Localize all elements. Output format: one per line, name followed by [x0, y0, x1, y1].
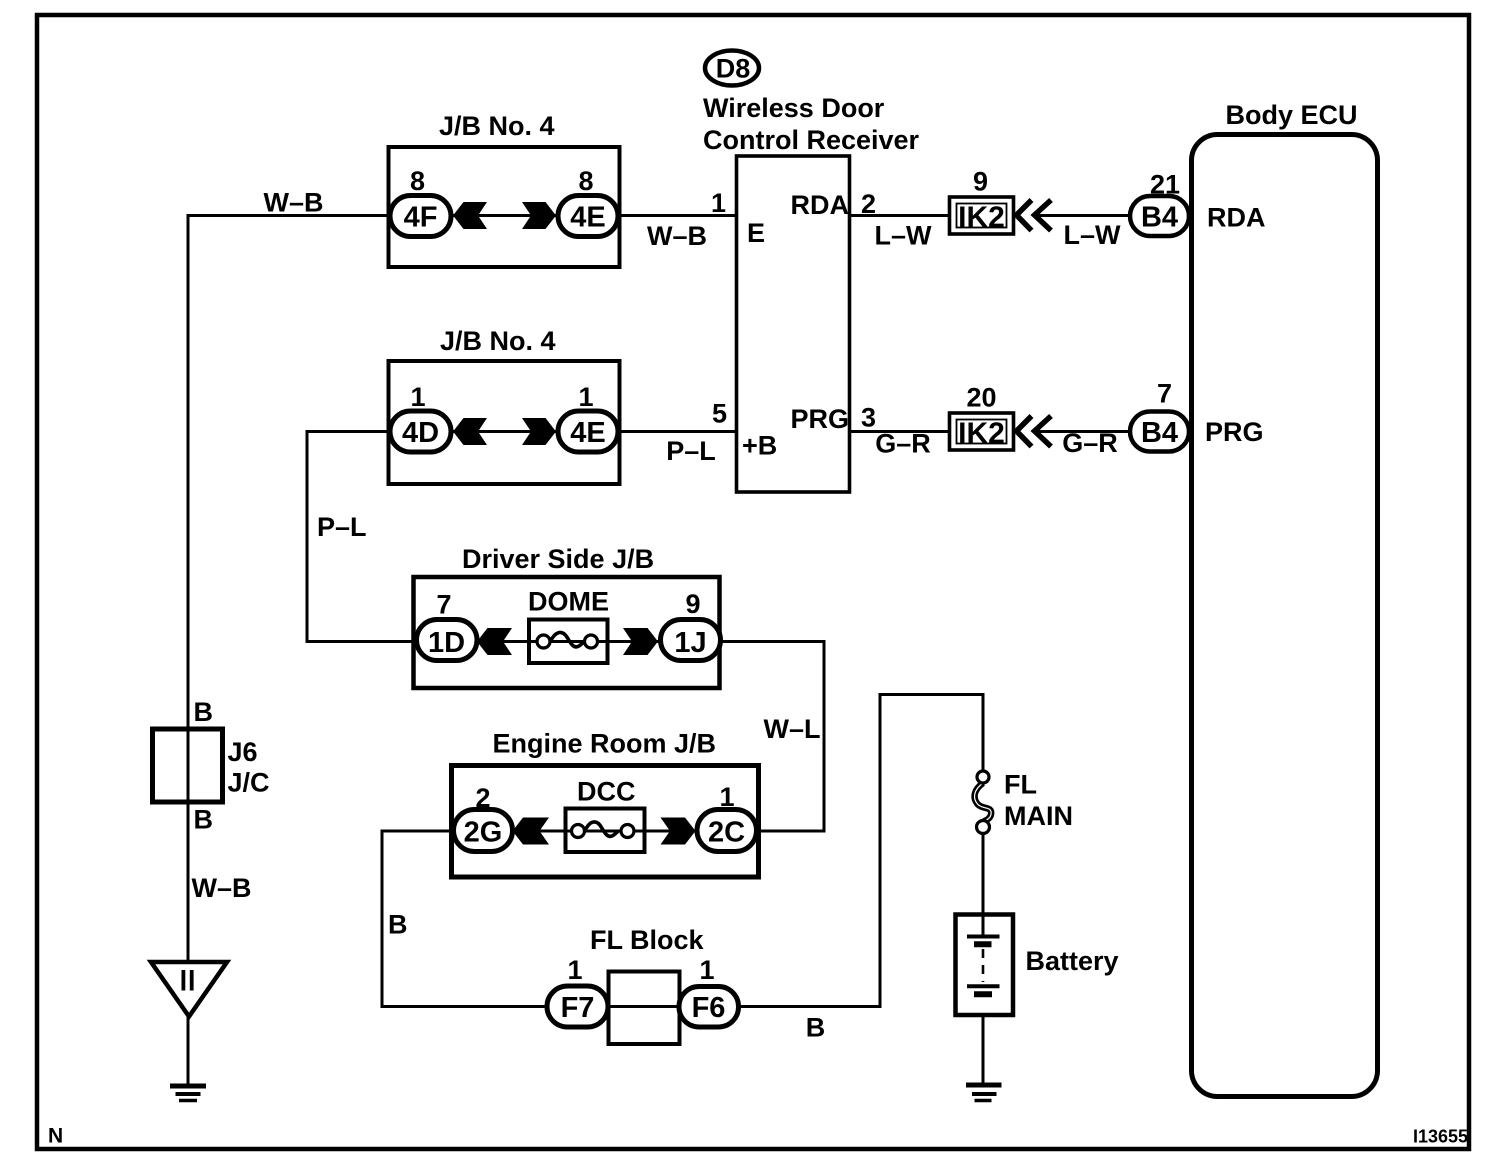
- wire: 4F to 4E inside J/B No.4 (row 1): [451, 214, 558, 217]
- connector 1J: [661, 620, 721, 661]
- wire W-B: 4E to receiver pin 1: [618, 214, 736, 217]
- ground connector triangle II: [151, 962, 227, 1017]
- connector 4E (row 2): [558, 411, 618, 452]
- wire L-W: receiver pin 2 to IK2: [851, 214, 950, 217]
- svg-text:N: N: [48, 1125, 63, 1148]
- wire: 4D to 4E inside J/B No.4 (row 2): [451, 430, 558, 433]
- svg-text:5: 5: [712, 399, 727, 429]
- svg-text:J/B No. 4: J/B No. 4: [439, 111, 555, 141]
- svg-text:4D: 4D: [402, 417, 439, 449]
- svg-text:20: 20: [966, 383, 996, 413]
- svg-text:W–B: W–B: [264, 188, 324, 218]
- svg-text:Battery: Battery: [1026, 946, 1119, 976]
- svg-text:1: 1: [699, 955, 714, 985]
- svg-text:2G: 2G: [464, 817, 503, 849]
- svg-text:4F: 4F: [404, 202, 438, 234]
- wire L-W: IK2 chevrons to B4: [1038, 214, 1131, 217]
- battery plate long bottom: [967, 984, 1000, 988]
- svg-text:FL: FL: [1004, 770, 1037, 800]
- arrow left (driver side): [477, 628, 512, 655]
- svg-text:1J: 1J: [674, 627, 706, 659]
- svg-text:J/B No. 4: J/B No. 4: [440, 326, 556, 356]
- arrow right (driver side): [623, 628, 658, 655]
- svg-text:P–L: P–L: [317, 512, 367, 542]
- wire: 2G to 2C inside Engine Room J/B: [513, 830, 697, 833]
- svg-text:8: 8: [410, 166, 425, 196]
- wire: battery to ground: [982, 994, 985, 1085]
- svg-text:MAIN: MAIN: [1004, 801, 1073, 831]
- connector B4 (row 1): [1130, 196, 1189, 236]
- connector D8 oval: [705, 51, 759, 86]
- svg-text:B4: B4: [1141, 202, 1178, 234]
- connector 2G: [454, 810, 513, 852]
- svg-text:B: B: [806, 1013, 826, 1043]
- svg-text:21: 21: [1150, 170, 1180, 200]
- svg-text:1: 1: [410, 382, 425, 412]
- svg-text:9: 9: [973, 167, 988, 197]
- arrow right (engine room): [661, 818, 696, 845]
- wire W-B: ground net from 4F left, down left side to J6 junction and triangle: [188, 216, 390, 963]
- Engine Room J/B box: [452, 766, 759, 878]
- svg-text:L–W: L–W: [875, 221, 933, 251]
- connector 4E (row 1): [558, 196, 618, 237]
- wire: triangle II apex to ground: [187, 1016, 190, 1085]
- battery plate short top: [974, 941, 992, 947]
- battery: [956, 915, 1014, 1016]
- svg-text:J/C: J/C: [228, 768, 270, 798]
- svg-text:RDA: RDA: [791, 190, 850, 220]
- chevrons (row 2): [1017, 416, 1032, 447]
- connector F7: [547, 986, 608, 1027]
- svg-text:P–L: P–L: [666, 436, 716, 466]
- wire W-L: 1J right, down to 2C of Engine Room J/B: [720, 642, 824, 832]
- svg-text:PRG: PRG: [1205, 417, 1264, 447]
- connector B4 (row 2): [1130, 412, 1189, 452]
- svg-text:G–R: G–R: [1062, 428, 1118, 458]
- svg-text:B: B: [194, 697, 214, 727]
- svg-text:IK2: IK2: [958, 201, 1005, 234]
- svg-text:IK2: IK2: [958, 417, 1005, 450]
- svg-text:E: E: [747, 218, 765, 248]
- wire P-L: 4E to receiver pin 5: [618, 430, 736, 433]
- svg-text:DCC: DCC: [577, 777, 636, 807]
- svg-text:J6: J6: [228, 737, 258, 767]
- battery dashed center: [982, 949, 985, 982]
- svg-text:1: 1: [719, 782, 734, 812]
- wire G-R: IK2 chevrons to B4: [1038, 430, 1131, 433]
- svg-text:1: 1: [567, 955, 582, 985]
- arrow left (row 1): [453, 202, 487, 229]
- wire G-R: receiver pin 3 to IK2: [851, 430, 950, 433]
- wire: FL MAIN to battery: [982, 833, 985, 937]
- svg-text:I13655: I13655: [1413, 1127, 1468, 1147]
- svg-text:RDA: RDA: [1207, 203, 1266, 233]
- J/B No.4 box (row 2): [389, 361, 620, 484]
- J/B No.4 box (row 1): [389, 147, 620, 267]
- wire B: 2G left, down to F7 of FL Block: [382, 831, 547, 1007]
- svg-text:W–B: W–B: [192, 873, 252, 903]
- svg-text:DOME: DOME: [528, 587, 609, 617]
- connector 4F: [390, 196, 451, 237]
- arrow right (row 1): [522, 202, 556, 229]
- svg-text:G–R: G–R: [875, 429, 931, 459]
- svg-text:W–B: W–B: [647, 221, 707, 251]
- svg-text:Control Receiver: Control Receiver: [703, 125, 920, 155]
- fuse DOME: [529, 620, 608, 664]
- fusible link FL MAIN: [975, 783, 992, 822]
- connector IK2 (row 2): [950, 413, 1014, 450]
- svg-text:3: 3: [861, 403, 876, 433]
- ground (left): [170, 1084, 206, 1089]
- battery plate long top: [967, 935, 1000, 939]
- svg-text:4E: 4E: [570, 417, 605, 449]
- junction J6 J/C: [153, 729, 223, 802]
- arrow right (row 2): [522, 418, 556, 445]
- svg-text:1: 1: [711, 188, 726, 218]
- svg-text:FL Block: FL Block: [590, 925, 705, 955]
- svg-text:4E: 4E: [570, 202, 605, 234]
- arrow left (row 2): [453, 418, 487, 445]
- svg-text:8: 8: [578, 166, 593, 196]
- svg-text:1D: 1D: [428, 627, 465, 659]
- svg-text:B4: B4: [1141, 417, 1178, 449]
- svg-text:7: 7: [436, 590, 451, 620]
- svg-text:D8: D8: [716, 54, 751, 84]
- svg-text:+B: +B: [742, 431, 777, 461]
- fuse DCC: [566, 809, 645, 853]
- svg-text:2: 2: [861, 189, 876, 219]
- svg-text:F6: F6: [692, 992, 726, 1024]
- Driver Side J/B box: [414, 577, 720, 688]
- svg-text:1: 1: [578, 382, 593, 412]
- wire B: F6 right, up and over to FL MAIN: [738, 695, 983, 1007]
- connector F6: [679, 987, 739, 1028]
- Body ECU box: [1192, 135, 1378, 1097]
- connector 4D: [390, 411, 451, 452]
- svg-text:PRG: PRG: [790, 404, 849, 434]
- wire: 1D to 1J inside Driver Side J/B: [477, 640, 661, 643]
- svg-text:L–W: L–W: [1064, 220, 1122, 250]
- ground (battery): [966, 1083, 1002, 1088]
- svg-text:Wireless Door: Wireless Door: [703, 93, 885, 123]
- svg-text:Driver Side J/B: Driver Side J/B: [462, 544, 654, 574]
- battery plate short bottom: [974, 991, 992, 997]
- svg-text:B: B: [194, 805, 214, 835]
- arrow left (engine room): [513, 818, 550, 845]
- connector IK2 (row 1): [950, 197, 1014, 234]
- svg-text:2C: 2C: [708, 817, 745, 849]
- wire P-L: 4D left, down, to 1D of Driver Side J/B: [307, 432, 417, 642]
- svg-text:B: B: [388, 910, 408, 940]
- svg-text:7: 7: [1157, 379, 1172, 409]
- svg-text:F7: F7: [561, 992, 595, 1024]
- chevrons (row 1): [1017, 200, 1032, 231]
- svg-text:Body ECU: Body ECU: [1226, 100, 1358, 130]
- receiver U D8 body: [737, 156, 850, 492]
- connector 1D: [417, 620, 478, 661]
- connector 2C: [697, 810, 757, 852]
- svg-text:Engine Room J/B: Engine Room J/B: [493, 729, 717, 759]
- svg-text:9: 9: [685, 589, 700, 619]
- svg-text:W–L: W–L: [764, 714, 821, 744]
